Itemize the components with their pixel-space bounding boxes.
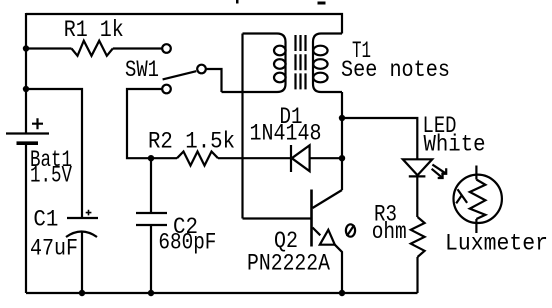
wire Q2 base — [243, 217, 312, 219]
wire D1 anode lead — [310, 157, 342, 159]
luxmeter top lead — [475, 166, 477, 180]
luxmeter bottom lead — [475, 219, 477, 233]
wire T1 secondary bottom to collector — [341, 92, 343, 190]
wire battery- down to bottom rail — [25, 145, 27, 293]
wire T1 primary top to Q2 base node — [241, 34, 243, 219]
capacitor C2 top plate — [136, 212, 167, 214]
svg-text:SW1: SW1 — [125, 57, 159, 83]
luxmeter lambda symbol — [456, 189, 467, 203]
transformer T1 secondary loop 3 — [313, 73, 327, 83]
transformer T1 secondary loop 1 — [313, 46, 327, 56]
wire top rail from battery+ to T1 — [26, 14, 342, 34]
cropped title remnant left — [236, 0, 239, 4]
wire bottom rail — [26, 292, 418, 294]
switch SW1 top terminal circle — [197, 65, 206, 74]
transformer T1 core dashed line 2 — [299, 35, 301, 90]
transformer T1 core dashed line 1 — [294, 35, 296, 90]
capacitor C1 curved plate — [66, 232, 97, 238]
svg-text:R2 1.5k: R2 1.5k — [148, 128, 235, 154]
svg-text:1N4148: 1N4148 — [250, 120, 322, 146]
wire C1 to bottom rail — [81, 231, 83, 294]
wire C2 bottom to rail — [150, 226, 152, 293]
svg-text:680pF: 680pF — [158, 230, 216, 256]
node battery+ C1 junction — [23, 86, 29, 92]
node C2 bottom junction — [148, 290, 154, 296]
wire Q2 emitter to bottom rail — [335, 245, 342, 293]
luxmeter body circle — [454, 175, 502, 223]
node battery+ R1 junction — [23, 45, 29, 51]
wire SW1 bottom terminal to R2 node — [127, 89, 177, 158]
transistor Q2 emitter lead upper — [313, 228, 321, 236]
transistor Q2 collector lead — [313, 190, 343, 208]
svg-text:47uF: 47uF — [30, 235, 78, 261]
node LED branch junction — [339, 115, 345, 121]
wire R1 left lead — [26, 47, 72, 49]
transformer T1 primary winding outline — [222, 34, 286, 93]
svg-text:ohm: ohm — [372, 219, 407, 245]
LED light arrow 2 shaft — [432, 169, 443, 178]
LED cathode bar — [409, 175, 426, 177]
switch SW1 lever — [163, 71, 197, 79]
switch SW1 bottom terminal circle — [162, 85, 171, 94]
wire C2 top — [150, 158, 152, 212]
diode D1 cathode bar — [290, 145, 292, 172]
wire LED cathode to R3 — [416, 176, 418, 217]
wire left vertical battery+ — [25, 13, 27, 133]
LED light arrow 2 head — [438, 173, 443, 179]
transformer T1 secondary winding outline — [313, 34, 342, 93]
battery Bat1 plus sign — [32, 118, 43, 129]
LED light arrow 1 shaft — [432, 165, 446, 174]
svg-text:Luxmeter: Luxmeter — [445, 230, 548, 256]
transformer T1 core dashed line 3 — [304, 35, 306, 90]
svg-text:See notes: See notes — [341, 57, 450, 83]
diode D1 triangle — [292, 145, 310, 171]
wire battery+ to C1 top — [26, 89, 82, 217]
resistor R1 — [72, 41, 113, 56]
LED triangle — [403, 159, 432, 175]
resistor R3 — [411, 217, 425, 257]
svg-text:White: White — [424, 132, 486, 158]
wire R1 right lead — [113, 47, 162, 49]
battery Bat1 long plate — [6, 132, 49, 134]
capacitor C2 bottom plate — [136, 224, 167, 226]
svg-text:C1: C1 — [33, 206, 58, 232]
transformer T1 primary loop 2 — [274, 59, 286, 69]
transistor Q2 emitter arrow — [320, 230, 335, 245]
LED light arrow 1 head — [441, 168, 446, 174]
capacitor C1 top plate — [67, 217, 98, 219]
transformer T1 secondary loop 2 — [313, 59, 327, 69]
node D1 anode junction — [339, 155, 345, 161]
svg-text:PN2222A: PN2222A — [247, 251, 330, 277]
wire R3 bottom to rail — [416, 257, 418, 293]
cropped title remnant right — [318, 2, 326, 5]
node C2 top junction — [148, 155, 154, 161]
terminal R1 open circle — [162, 44, 171, 53]
luxmeter internal resistor zigzag — [470, 180, 486, 220]
transformer T1 primary loop 3 — [274, 73, 286, 83]
transformer T1 primary loop 1 — [274, 46, 286, 56]
svg-text:1.5V: 1.5V — [30, 162, 72, 188]
resistor R2 — [177, 152, 218, 166]
label 0 — [346, 224, 355, 236]
wire SW1 top terminal to T1 primary bottom — [206, 69, 222, 92]
svg-text:R1 1k: R1 1k — [64, 17, 124, 43]
capacitor C1 plus sign — [86, 210, 92, 216]
wire LED branch top — [342, 118, 417, 159]
battery Bat1 short plate — [17, 141, 39, 145]
node emitter bottom junction — [339, 290, 345, 296]
node C1 bottom junction — [79, 290, 85, 296]
transistor Q2 base bar — [310, 190, 313, 247]
wire R2 to D1 cathode — [218, 157, 290, 159]
